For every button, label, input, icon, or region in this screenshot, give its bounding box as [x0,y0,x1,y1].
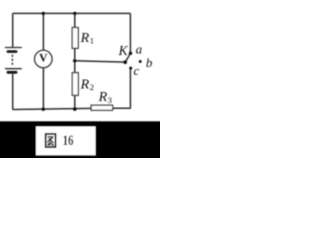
wire R2 bottom lead [74,95,76,109]
junction bottom voltmeter [42,108,45,111]
battery plate long bottom (+) [5,68,22,70]
wire voltmeter bottom lead [42,68,44,109]
wire right vertical upper (top to a) [129,13,131,52]
svg-text:c: c [134,63,140,78]
node c (switch contact) [129,67,132,70]
svg-text:R: R [80,77,90,92]
svg-text:2: 2 [90,82,94,92]
svg-text:R: R [98,90,108,105]
node a (switch contact) [129,52,132,55]
caption glyph tu (figure) [46,134,56,147]
svg-text:K: K [118,43,129,58]
wire R2 top lead [74,61,76,73]
wire bottom horizontal left [13,108,91,109]
caption black band [0,121,163,161]
wire left vertical (battery top lead) [12,13,14,47]
battery dashed line (more cells) [11,55,13,66]
node b (switch contact) [139,60,142,63]
junction top R1 [73,12,76,15]
battery plate long top (+) [5,47,22,49]
svg-text:16: 16 [63,131,74,148]
svg-text:a: a [136,42,143,57]
caption white box [36,127,96,156]
svg-text:R: R [80,31,90,46]
wire R1 to mid junction [74,48,76,61]
battery plate short thick bottom (-) [7,71,18,74]
resistor R2 body [72,73,78,96]
junction mid R1-R2-switch [73,59,76,62]
wire right vertical lower (c to bottom) [129,69,131,109]
junction bottom R2 [73,107,77,111]
svg-text:1: 1 [90,36,94,46]
battery plate short thick top (-) [7,50,18,53]
wire battery bottom lead [12,74,14,110]
svg-text:3: 3 [108,95,112,105]
voltmeter V circle [35,50,53,68]
resistor R1 body [72,28,78,49]
switch K lever [125,53,130,62]
wire mid horizontal to switch pivot [75,61,126,62]
svg-text:b: b [146,55,153,70]
wire top horizontal [13,12,131,14]
resistor R3 body [91,105,113,110]
wire bottom horizontal right [113,107,131,109]
wire voltmeter top lead [42,13,44,50]
svg-text:V: V [39,53,48,65]
wire R1 top lead [74,13,76,27]
junction top voltmeter [42,12,45,15]
switch pivot dot [123,60,127,64]
